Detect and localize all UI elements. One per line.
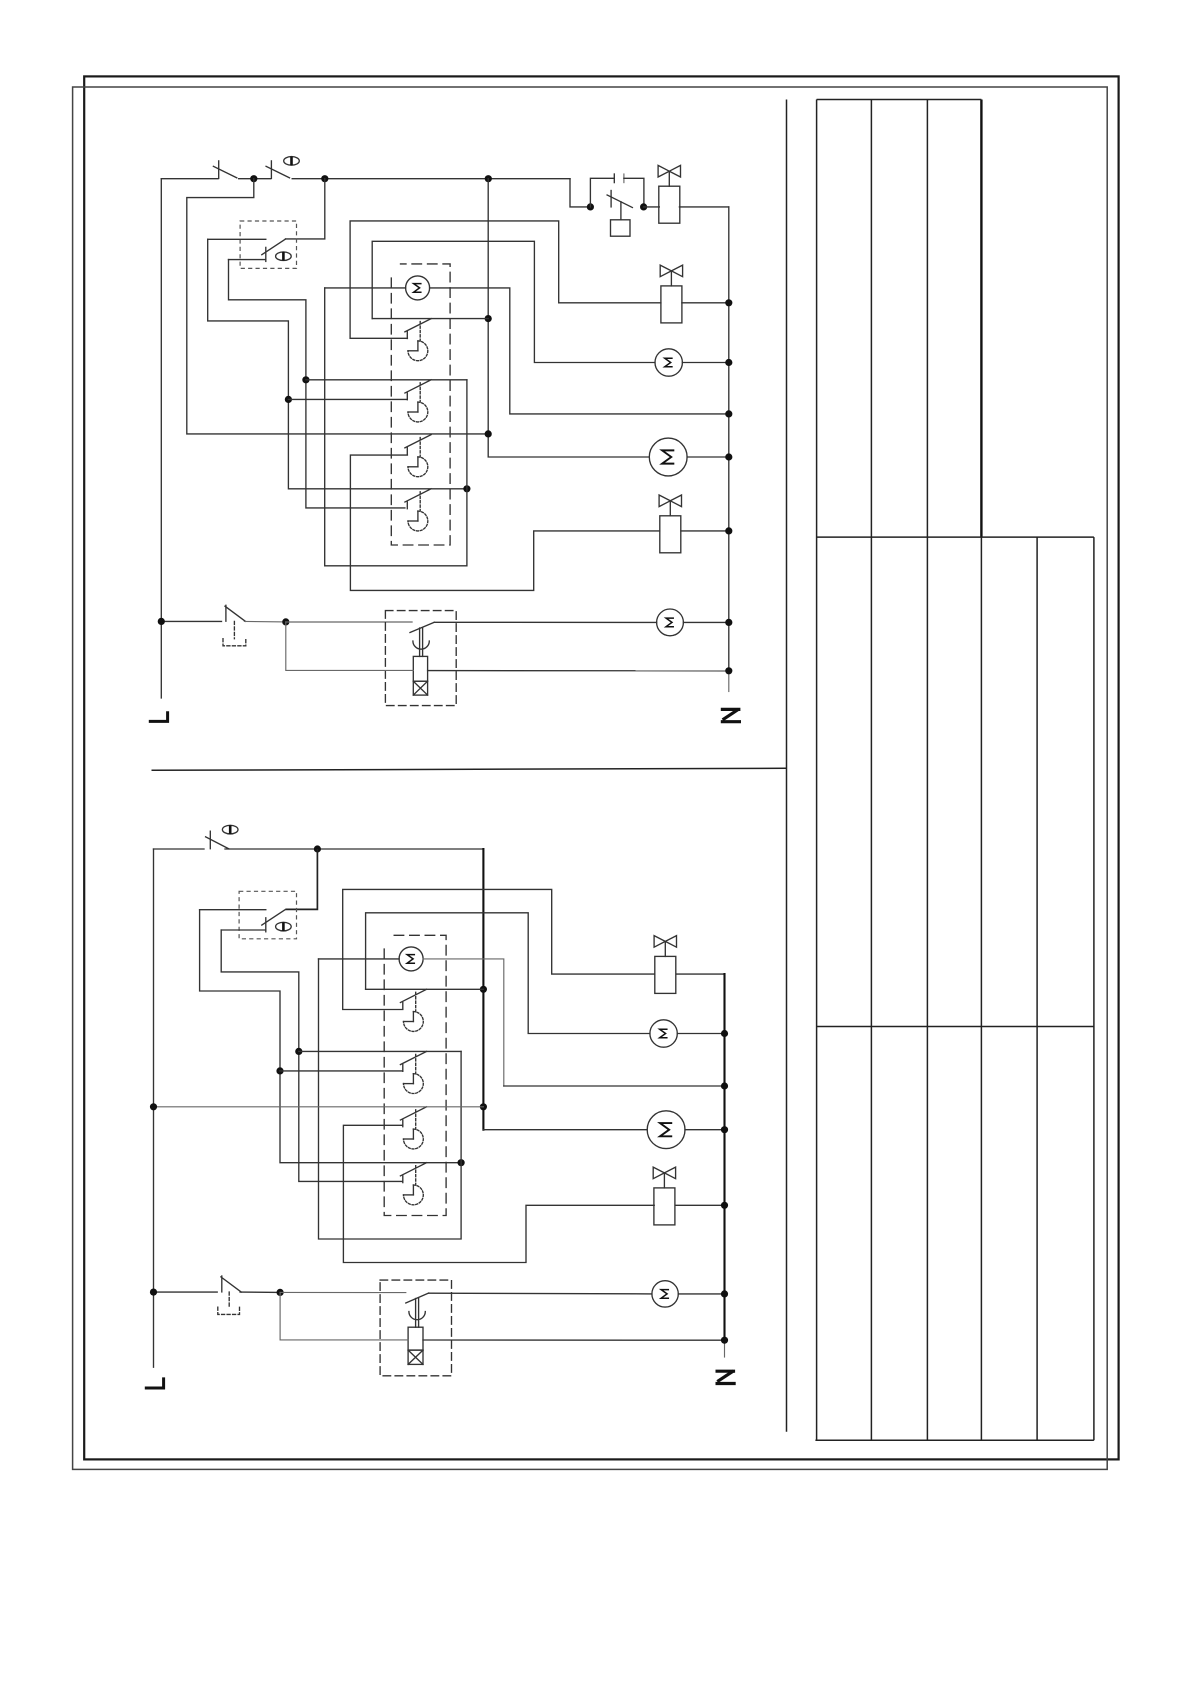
L terminal label (circuit 1) [149, 711, 169, 723]
offset copy of frame (scan double edge) [73, 87, 1108, 1469]
theta label of thermostat b [276, 922, 292, 931]
drain pump switch blade [410, 622, 434, 632]
node: L rail / pressure switch [158, 618, 165, 625]
cam switch S6 (timer contact 3) [405, 435, 431, 477]
node: drain branch split [282, 618, 289, 625]
wire: valve Y1 to N rail [679, 206, 728, 208]
wire: rail node b2 down to thermostat [286, 849, 318, 909]
node: N rail / M1 [725, 453, 732, 460]
wire: cam S4b contact loop to valve Y1b [343, 889, 655, 1009]
wire: M3b to N [677, 1033, 724, 1035]
wire: rail segment 3 [292, 178, 570, 180]
title block separator vertical [786, 100, 788, 1432]
title table right edge [1093, 537, 1095, 1440]
solenoid valve Y3 [659, 495, 681, 553]
N rail tail stub [728, 671, 730, 692]
title table column line 4 (heavy) [980, 100, 982, 538]
title table column line 2 [870, 100, 872, 1441]
wire: M2 right lead to N [430, 288, 729, 414]
node: N rail / M2b return [721, 1082, 728, 1089]
solenoid valve Y2b [653, 1167, 675, 1225]
wire: motor M1 to N rail [687, 456, 729, 458]
drain unit dashed enclosure [385, 611, 456, 706]
node: cam S7 pivot / tie line [463, 485, 470, 492]
wire: cam S4 pivot loop to heater motor m3 [372, 241, 655, 362]
node: drain branch split b [277, 1289, 284, 1296]
title table row line 1 [817, 536, 1094, 538]
node: N rail / drain return b [721, 1337, 728, 1344]
drain pump switch blade b [406, 1293, 429, 1303]
timer motor M2 [406, 276, 430, 300]
wire to valve Y1 [644, 206, 660, 208]
N rail tail stub b [724, 1340, 726, 1357]
recirculation pump motor M3b [650, 1020, 677, 1047]
wire: drain valve to N [428, 670, 729, 672]
thermostat switch S5b blade [262, 909, 286, 931]
node: N rail / M1b [721, 1126, 728, 1133]
node: N rail / M3 [725, 359, 732, 366]
wire: thermostat upper contact left [208, 238, 266, 240]
wire: node to drain pump switch [286, 621, 412, 623]
wire: vertical feed from rail node c [488, 179, 649, 457]
wire: valve Y3 to N [681, 530, 729, 532]
node: N rail / Y2b [721, 1202, 728, 1209]
cam switch S5b (timer contact 2) [400, 1051, 426, 1093]
wire: cam S4b pivot line [366, 988, 484, 990]
pressure switch S8 [161, 620, 221, 622]
wire: cam S6b contact loop to valve Y2b [343, 1125, 654, 1262]
wire: M1b to N rail [685, 1129, 725, 1131]
node: N rail / M4 [725, 619, 732, 626]
cam switch S5 (timer contact 2) [405, 380, 431, 422]
node: rail junction b2 [314, 845, 321, 852]
node: N rail / M4b [721, 1290, 728, 1297]
wire: rail to feed drop [225, 848, 483, 850]
door lock coil (square) [611, 202, 631, 236]
wire: staircase W-b to cam S5 contact and cam S7 pivot [208, 239, 467, 488]
wire: cam S4 pivot line [372, 318, 488, 320]
wire: M3 to N [682, 362, 728, 364]
wire: cam S5b contact line [280, 1070, 403, 1072]
wire: top rail segment (circuit 2) [154, 848, 205, 850]
main drum motor M1b [647, 1111, 685, 1149]
drain valve body b [408, 1327, 423, 1350]
outer drawing frame [84, 76, 1118, 1459]
cam switch S4 (timer contact 1) [405, 319, 431, 361]
title table top edge [817, 99, 982, 101]
N terminal label (circuit 1) [721, 709, 741, 722]
wire: cam S5b pivot line [299, 1050, 461, 1052]
cam switch S7 (timer contact 4) [405, 489, 431, 531]
thermal cutout switch S2 [266, 161, 289, 179]
wire: cam S6b pivot line from L rail [154, 1106, 484, 1108]
thermal cutout switch S1b [206, 831, 229, 849]
node: door-lock branch right [640, 203, 647, 210]
node: N rail / M3b [721, 1030, 728, 1037]
node: W-b / cam S5 contact wire [285, 396, 292, 403]
node: N rail / Y2 [725, 299, 732, 306]
recirculation pump motor M3 [655, 349, 682, 376]
wire: M2b left lead [319, 958, 400, 960]
wire: M4 to N [683, 621, 728, 623]
N terminal label (circuit 2) [716, 1371, 736, 1384]
separator between circuit 1 and circuit 2 [152, 768, 787, 770]
wire: rail segment 2 [239, 178, 271, 180]
wire: staircase W-b2 to cam S5b contact and cam S7b pivot [200, 910, 462, 1163]
cam switch S6b (timer contact 3) [400, 1107, 426, 1149]
node: feed/cam S4 pivot [485, 315, 492, 322]
title table bottom edge [815, 1439, 1094, 1441]
node: feed/cam S6 pivot [485, 430, 492, 437]
cam switch S4b (timer contact 1) [400, 989, 426, 1031]
wire: drain valve b to N [423, 1339, 725, 1341]
N return rail (circuit 2) [723, 974, 725, 1340]
theta label of S2 [284, 157, 300, 166]
wire: thermostat lower contact left b [221, 929, 266, 931]
node: feed / cam S6b pivot [480, 1103, 487, 1110]
wire: drain valve return [286, 622, 414, 671]
N return rail (circuit 1) [728, 207, 730, 671]
solenoid valve Y1 [658, 165, 680, 223]
wire: staircase W-a2 to cam S5b pivot and cam S7b contact [221, 930, 402, 1181]
wire: pump switch to motor M4 [434, 621, 656, 623]
L supply rail (circuit 2) [153, 849, 155, 1367]
wire: M2b right lead to N [423, 959, 504, 1086]
node: rail junction a [250, 175, 257, 182]
wire: M2 left route to tie line [325, 288, 467, 566]
node: N rail / M2 return [725, 410, 732, 417]
wire: thermostat upper contact left b [200, 909, 266, 911]
drain pump motor M4 [657, 609, 684, 636]
title table row line 2 [817, 1026, 1094, 1028]
wire: cam S6 contact loop to valve Y3 [350, 455, 659, 590]
wire: cam S5 contact line [288, 398, 407, 400]
wire: M2 left lead [325, 287, 406, 289]
wire: top rail segment 1 [161, 178, 218, 180]
wire: drain valve return b [280, 1292, 408, 1340]
thermostat dashed enclosure b [239, 891, 296, 939]
wire: branch from node a to cam S6 pivot rail [187, 179, 488, 434]
thermostat switch S5 blade [262, 239, 286, 261]
wire: pressure switch b to drain branch node [240, 1291, 280, 1293]
timer dashed enclosure (circuit 2) [384, 935, 446, 1215]
door lock switch S3 [607, 191, 632, 208]
wire: cam S4b pivot loop to pump motor M3b [366, 913, 650, 1034]
wire: rail drop to door-lock branch [570, 179, 590, 207]
node: N rail / drain return [725, 667, 732, 674]
node: L rail / cam S6b pivot [150, 1103, 157, 1110]
node: N rail / Y3 [725, 527, 732, 534]
drain pump motor M4b [652, 1281, 678, 1307]
switch S1 (door interlock contact) [213, 161, 236, 179]
L terminal label (circuit 2) [145, 1377, 165, 1389]
node: L rail / pressure switch b [150, 1289, 157, 1296]
node: feed / cam S4b pivot [480, 986, 487, 993]
solenoid valve Y2 [660, 265, 682, 323]
title table column line 1 [816, 100, 818, 1441]
drain valve body [413, 656, 427, 681]
wire: valve Y2b to N [676, 1204, 725, 1206]
wire: node to drain pump switch b [280, 1291, 406, 1293]
wire: pump switch b to motor M4b [429, 1292, 652, 1295]
thermostat dashed enclosure [240, 221, 296, 268]
drain valve X element b [408, 1350, 423, 1364]
wire: M4b to N [678, 1293, 724, 1295]
node: W-a2 / cam S5b pivot wire [295, 1048, 302, 1055]
theta label of S1b [222, 825, 238, 834]
timer dashed enclosure (circuit 1) [391, 264, 450, 545]
pressure switch S8b [154, 1291, 218, 1293]
wire: cam S5 pivot line [306, 379, 467, 381]
title table column line 5 [1036, 537, 1038, 1440]
node: rail junction c [485, 175, 492, 182]
node: door-lock branch left [587, 203, 594, 210]
drain pump actuator plunger [413, 628, 429, 656]
solenoid valve Y1b [654, 936, 676, 994]
theta label of thermostat [276, 252, 292, 261]
wire: valve Y1b to N [677, 973, 725, 975]
wire: staircase W-a to cam S5 pivot and cam S7 contact [229, 260, 405, 508]
wire: pressure switch to drain branch node [244, 620, 285, 623]
drain unit dashed enclosure b [380, 1280, 451, 1376]
wire: feed drop to cams and motor M1b [482, 849, 484, 1130]
title table column line 3 [926, 100, 928, 1441]
wire: valve Y2 to N [682, 302, 729, 304]
interlock bypass contact (capacitor style) [590, 174, 644, 207]
main drum motor M1 [649, 438, 687, 476]
wire: M2b left route to tie line [319, 959, 462, 1239]
drain pump actuator plunger b [409, 1299, 425, 1328]
timer motor M2b [399, 947, 423, 971]
L supply rail (circuit 1) [160, 179, 162, 698]
node: W-b2 / cam S5b contact wire [276, 1067, 283, 1074]
node: W-a / cam S5 pivot wire [302, 376, 309, 383]
wire: rail node b down to thermostat [286, 179, 325, 239]
drain valve X element [413, 681, 427, 695]
wire: thermostat lower contact left [229, 259, 266, 261]
wire: cam S4 contact loop to valve Y2 [350, 221, 661, 338]
node: rail junction b [321, 175, 328, 182]
cam switch S7b (timer contact 4) [400, 1163, 426, 1205]
node: cam S7b pivot / tie line [458, 1159, 465, 1166]
